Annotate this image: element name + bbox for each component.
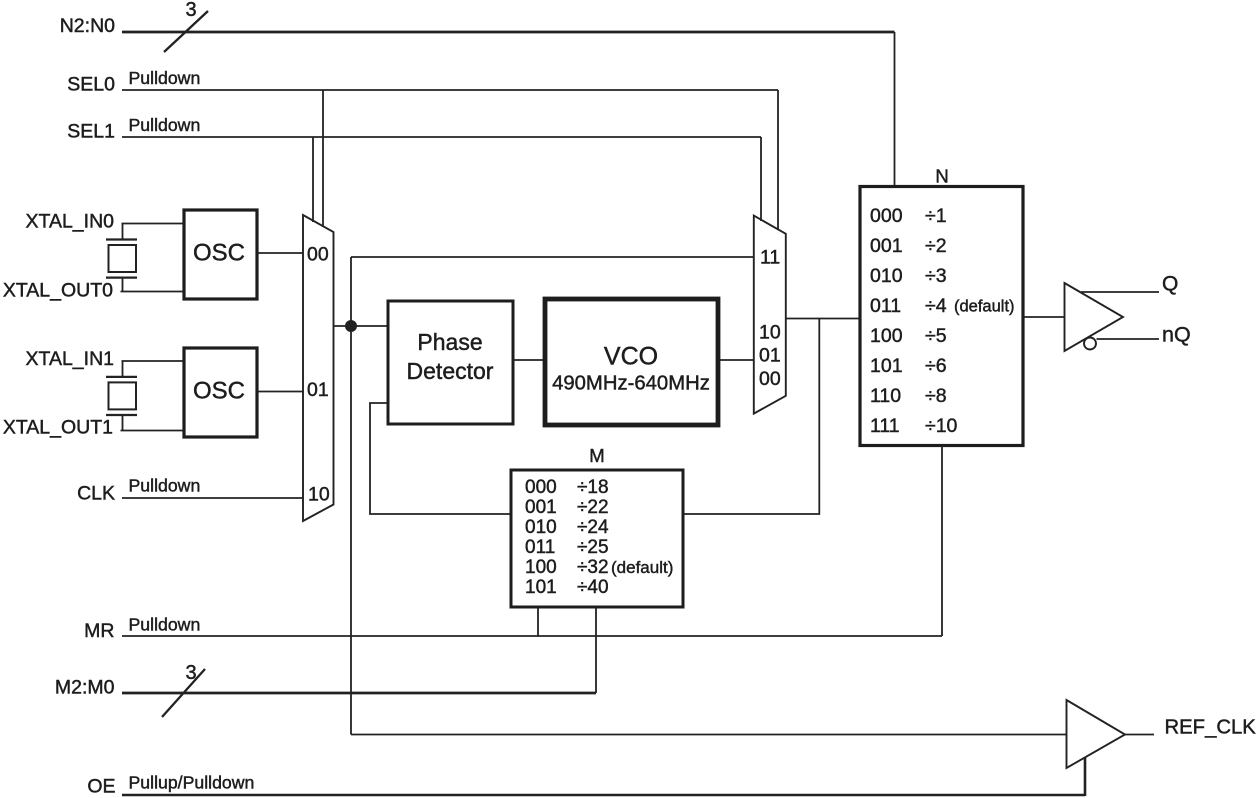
- wire feedback to divider M: [684, 319, 820, 515]
- wire crystal Y1 to XTAL_OUT0: [122, 279, 124, 292]
- svg-text:011: 011: [525, 537, 555, 558]
- svg-text:3: 3: [185, 662, 196, 684]
- svg-text:nQ: nQ: [1162, 323, 1191, 347]
- svg-text:00: 00: [307, 244, 329, 266]
- wire SEL1 down to mux2 select: [760, 137, 762, 221]
- svg-text:÷6: ÷6: [925, 355, 947, 377]
- svg-text:101: 101: [525, 577, 557, 598]
- svg-text:÷22: ÷22: [577, 497, 609, 518]
- divider N box: [860, 187, 1023, 446]
- svg-text:3: 3: [185, 0, 196, 21]
- wire OE: [122, 794, 1085, 797]
- svg-text:Detector: Detector: [407, 358, 494, 384]
- svg-text:÷5: ÷5: [925, 325, 947, 347]
- svg-text:01: 01: [307, 379, 329, 401]
- svg-text:SEL0: SEL0: [67, 74, 115, 96]
- svg-text:10: 10: [308, 484, 330, 506]
- wire OE up to REF_CLK buffer enable: [1084, 757, 1087, 796]
- svg-text:N2:N0: N2:N0: [60, 15, 115, 37]
- svg-text:÷25: ÷25: [577, 537, 609, 558]
- svg-text:÷10: ÷10: [925, 415, 958, 437]
- wire REF_CLK output: [1125, 734, 1154, 736]
- svg-text:÷3: ÷3: [925, 265, 947, 287]
- wire divider N reset from MR: [941, 446, 943, 636]
- svg-text:Pulldown: Pulldown: [129, 615, 201, 635]
- wire crystal Y2 to XTAL_OUT1: [122, 416, 124, 431]
- svg-text:Pullup/Pulldown: Pullup/Pulldown: [129, 773, 255, 793]
- svg-text:M2:M0: M2:M0: [55, 677, 115, 699]
- svg-text:100: 100: [525, 557, 557, 578]
- svg-text:÷8: ÷8: [925, 385, 947, 407]
- svg-text:001: 001: [870, 235, 903, 257]
- wire N2:N0 bus: [122, 31, 895, 34]
- svg-text:N: N: [935, 166, 948, 187]
- wire mux2 output to divider N: [786, 318, 860, 320]
- svg-text:OSC: OSC: [193, 378, 245, 405]
- svg-text:÷1: ÷1: [925, 205, 947, 227]
- svg-text:Q: Q: [1162, 273, 1178, 296]
- mux2 feedback selector: [754, 216, 786, 414]
- wire ref clock to REF_CLK buffer: [351, 734, 1067, 736]
- svg-text:490MHz-640MHz: 490MHz-640MHz: [552, 373, 710, 395]
- svg-text:110: 110: [870, 385, 901, 407]
- svg-text:MR: MR: [84, 620, 114, 642]
- wire XTAL_OUT1: [121, 430, 185, 432]
- junction dot: [345, 320, 357, 332]
- crystal Y2 body: [109, 382, 137, 409]
- wire divider M output to phase detector input: [370, 403, 511, 514]
- svg-text:REF_CLK: REF_CLK: [1165, 717, 1256, 739]
- wire phase detector output to VCO: [513, 359, 545, 361]
- svg-text:Phase: Phase: [417, 329, 482, 355]
- svg-text:Pulldown: Pulldown: [129, 68, 201, 88]
- phase detector U1 box: [388, 301, 513, 424]
- wire MR: [122, 635, 942, 637]
- wire N2:N0 bus vertical into divider N: [894, 32, 896, 187]
- svg-text:÷24: ÷24: [577, 517, 609, 538]
- wire divider M select stub to M2:M0: [595, 607, 597, 693]
- svg-text:100: 100: [870, 325, 903, 347]
- svg-text:XTAL_OUT0: XTAL_OUT0: [3, 280, 113, 302]
- wire divider N output to Q buffer: [1024, 316, 1065, 318]
- wire SEL0 branch to mux1 select: [322, 90, 324, 227]
- svg-text:÷32: ÷32: [577, 557, 609, 578]
- crystal Y1 body: [109, 245, 137, 272]
- svg-text:XTAL_IN0: XTAL_IN0: [25, 211, 114, 233]
- svg-text:(default): (default): [611, 558, 673, 577]
- svg-text:÷2: ÷2: [925, 235, 947, 257]
- svg-text:000: 000: [525, 477, 557, 498]
- svg-text:001: 001: [525, 497, 557, 518]
- svg-text:CLK: CLK: [77, 483, 115, 505]
- wire VCO output to mux2 input 01: [718, 359, 754, 361]
- wire divider M reset stub to MR: [537, 607, 539, 636]
- wire Q output: [1081, 291, 1159, 293]
- svg-text:XTAL_OUT1: XTAL_OUT1: [3, 417, 113, 439]
- svg-text:Pulldown: Pulldown: [129, 115, 201, 135]
- wire XTAL_IN0 down to crystal Y1: [122, 224, 124, 240]
- REF_CLK buffer triangle: [1067, 700, 1126, 768]
- crystal Y2 bottom plate: [106, 414, 137, 416]
- wire OSC1 output to mux1 input 01: [257, 391, 304, 393]
- svg-text:00: 00: [759, 368, 781, 390]
- bus-width slash on M2:M0: [162, 669, 205, 717]
- divider M box: [511, 470, 683, 607]
- wire mux1 output to phase detector: [334, 325, 389, 327]
- svg-text:OSC: OSC: [193, 240, 245, 267]
- output buffer Q/nQ triangle: [1065, 283, 1124, 351]
- svg-text:÷4: ÷4: [925, 295, 947, 317]
- svg-text:÷18: ÷18: [577, 477, 609, 498]
- svg-text:XTAL_IN1: XTAL_IN1: [25, 348, 114, 370]
- wire SEL1 branch to mux1 select: [312, 137, 314, 222]
- oscillator OSC1 box: [184, 348, 257, 437]
- crystal Y1 top plate: [106, 238, 137, 240]
- wire XTAL_OUT0: [121, 291, 185, 293]
- bus-width slash on N2:N0: [164, 11, 208, 52]
- svg-text:101: 101: [870, 355, 903, 377]
- svg-text:111: 111: [870, 415, 900, 437]
- svg-text:01: 01: [759, 345, 781, 367]
- oscillator OSC0 box: [184, 210, 257, 299]
- svg-text:010: 010: [525, 517, 557, 538]
- crystal Y1 bottom plate: [106, 277, 137, 279]
- svg-text:011: 011: [870, 295, 901, 317]
- svg-text:11: 11: [760, 247, 780, 269]
- svg-text:M: M: [589, 445, 604, 466]
- svg-text:VCO: VCO: [604, 343, 658, 371]
- inversion bubble on nQ: [1084, 338, 1096, 350]
- wire OSC0 output to mux1 input 00: [257, 252, 304, 254]
- svg-text:÷40: ÷40: [577, 577, 609, 598]
- svg-text:(default): (default): [954, 298, 1015, 316]
- wire trunk vertical (ref clock distribution): [350, 257, 352, 735]
- svg-text:SEL1: SEL1: [67, 121, 115, 143]
- wire nQ output: [1097, 338, 1160, 340]
- wire XTAL_IN1: [122, 360, 185, 362]
- svg-text:Pulldown: Pulldown: [129, 476, 201, 496]
- svg-text:000: 000: [870, 205, 903, 227]
- svg-text:OE: OE: [87, 776, 115, 798]
- svg-text:010: 010: [870, 265, 903, 287]
- wire M2:M0 bus: [122, 692, 596, 695]
- wire SEL1: [122, 136, 761, 138]
- crystal Y2 top plate: [106, 376, 137, 378]
- mux1 input selector: [303, 215, 334, 521]
- wire XTAL_IN0: [122, 223, 185, 225]
- wire SEL0: [122, 89, 778, 91]
- wire CLK to mux1 input 10: [122, 497, 304, 499]
- wire XTAL_IN1 down to crystal Y2: [122, 361, 124, 376]
- VCO box: [545, 299, 718, 425]
- svg-text:10: 10: [759, 322, 781, 344]
- wire ref clock to mux2 input 11: [351, 256, 754, 258]
- wire SEL0 down to mux2 select: [777, 90, 779, 230]
